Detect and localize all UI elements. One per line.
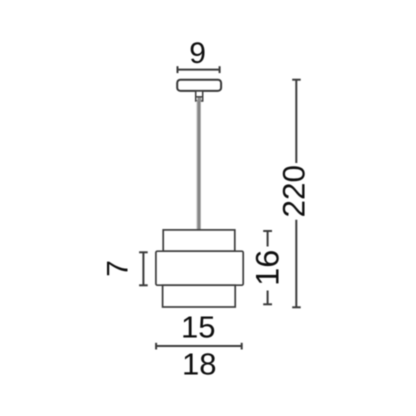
shade middle band — [156, 251, 243, 285]
svg-text:18: 18 — [182, 347, 216, 382]
ceiling canopy — [177, 80, 221, 91]
dimension line 16 — [263, 231, 272, 304]
dimension line 9 — [178, 66, 220, 73]
svg-text:15: 15 — [181, 309, 215, 344]
svg-text:220: 220 — [275, 165, 311, 218]
cable connector — [196, 91, 203, 101]
svg-text:16: 16 — [250, 250, 286, 286]
svg-text:9: 9 — [189, 37, 206, 70]
dimension line 7 — [139, 252, 148, 285]
shade top band — [163, 230, 235, 251]
dimension line 18 — [156, 343, 242, 350]
svg-text:7: 7 — [101, 260, 134, 277]
dimension line 220 — [292, 80, 301, 308]
shade bottom band — [163, 285, 236, 307]
suspension cable — [196, 101, 201, 231]
